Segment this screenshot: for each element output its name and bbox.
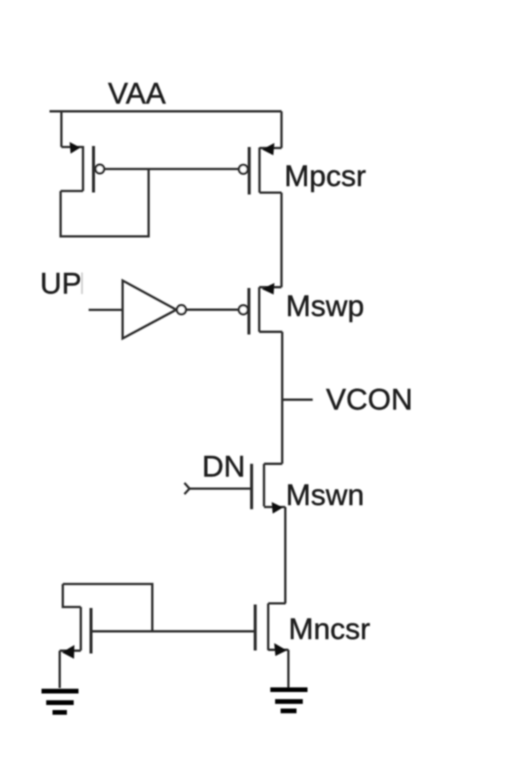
wire Mncsr source to ground <box>287 650 289 688</box>
wire Mswp drain to Mswn drain (VCON net) <box>281 332 283 464</box>
wire Mpcsr drain to Mswp source <box>280 193 282 288</box>
net VAA rail <box>50 110 282 112</box>
wire DN input to Mswn gate <box>190 487 252 489</box>
svg-text:Mpcsr: Mpcsr <box>284 160 366 193</box>
label Mswn <box>286 479 364 512</box>
cursor caret after UP <box>81 273 83 295</box>
transistor Mncsr (NMOS current source) <box>255 603 288 656</box>
label Mncsr <box>289 613 371 646</box>
wire VAA to Mpcsr source <box>280 111 282 148</box>
svg-text:Mswn: Mswn <box>286 479 364 512</box>
label VCON <box>326 383 413 416</box>
label VAA <box>108 77 166 110</box>
label UP <box>40 267 82 300</box>
node VCON tick <box>283 399 313 401</box>
transistor Mpcsr (PMOS current source) <box>239 143 282 195</box>
svg-text:DN: DN <box>202 451 245 484</box>
nmos M2 diode-connected mirror (bottom left) <box>60 584 91 659</box>
wire Mswn source to Mncsr drain <box>284 507 286 603</box>
wire inverter output to Mswp gate <box>186 309 239 311</box>
svg-text:UP: UP <box>40 267 82 300</box>
label Mswp <box>286 290 364 323</box>
inverter U1 <box>123 281 186 339</box>
transistor Mswn (NMOS switch) <box>252 464 286 514</box>
transistor Mswp (PMOS switch) <box>239 283 282 335</box>
svg-text:Mncsr: Mncsr <box>289 613 371 646</box>
wire M1 drain-to-gate diode loop <box>61 169 149 236</box>
wire M2 drain-to-gate diode loop <box>63 584 153 631</box>
ground (right) <box>270 690 307 711</box>
wire gate net M2 to Mncsr <box>91 630 255 632</box>
svg-text:VAA: VAA <box>108 77 166 110</box>
wire UP input to inverter <box>89 309 123 311</box>
label DN <box>202 451 245 484</box>
wire gate net M1 to Mpcsr <box>104 168 239 170</box>
ground (left) <box>42 691 79 712</box>
pmos M1 diode-connected mirror (left) <box>61 142 105 193</box>
pin DN input chevron <box>184 483 189 494</box>
wire M2 source to ground <box>59 651 61 688</box>
label Mpcsr <box>284 160 366 193</box>
svg-text:VCON: VCON <box>326 383 413 416</box>
svg-text:Mswp: Mswp <box>286 290 364 323</box>
wire VAA to left mirror PMOS source <box>60 111 62 147</box>
